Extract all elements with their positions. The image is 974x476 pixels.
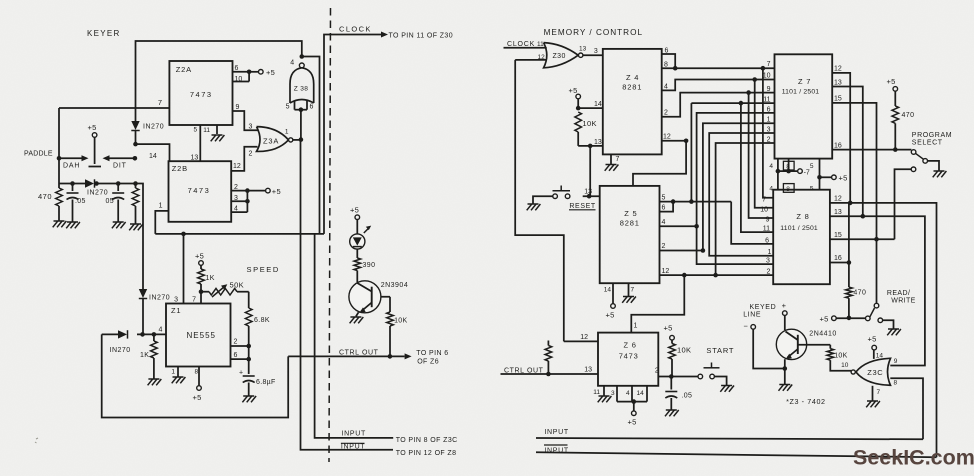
node Z8 pin 13 junction [861,214,866,219]
svg-text:1: 1 [767,117,771,124]
diode IN270 on bottom rail [85,179,108,196]
ground Z4 pin 7 [605,154,620,170]
svg-text:SPEED: SPEED [247,265,280,274]
wire Z2A pin 7 [59,98,169,108]
svg-text:Z 8: Z 8 [796,212,809,221]
key +5 terminal [88,123,97,137]
svg-text:READ/: READ/ [887,290,910,297]
resistor 10K keyed [827,345,848,360]
IC Z6 7473 [598,333,658,386]
svg-text:6: 6 [662,204,666,211]
IC Z8 1101/2501 [773,190,830,285]
IC Z4 8281 [603,49,662,154]
INPUT terminal right [528,429,569,436]
svg-text:7: 7 [158,98,162,107]
wire Z4 pin 14 [576,101,603,110]
wire Z4 pin 6 bracket [662,48,676,69]
wire keyer INPUT-bar line [301,140,394,451]
svg-text:KEYER: KEYER [87,29,121,38]
resistor 470 read-write [846,287,867,318]
svg-text:Z 6: Z 6 [624,341,637,350]
svg-text:.05: .05 [75,198,86,205]
wire CTRL OUT of keyer [288,349,448,365]
ground dah cap [66,222,80,228]
svg-text:WRITE: WRITE [891,297,916,304]
diode IN270 into Z1 pin 4 [110,330,131,354]
svg-text:50K: 50K [230,281,245,290]
wire Z7 pin 2 bus to Z8 pin 2 [716,136,775,275]
svg-text:TO PIN 6: TO PIN 6 [416,350,448,357]
wire Z1 pin 2 [231,339,252,349]
IC Z2B 7473 [169,161,232,222]
svg-text:13: 13 [579,46,587,53]
wire Z1 pin 4 line [102,327,166,335]
wire Z7 pin 4 pin 8 to -7 supply [769,159,810,177]
+5 terminal Z6 start [664,324,675,344]
node bus on Z5 pin 2 line [701,248,706,253]
svg-text:12: 12 [834,196,842,203]
svg-text:5: 5 [662,194,666,201]
wire bus Z7.7 to Z8.7 [762,68,773,203]
label Z3 is 7402 [786,397,826,406]
svg-text:10K: 10K [834,353,847,360]
node PADDLE junction [24,151,61,161]
svg-text:4: 4 [626,390,630,397]
INPUT stub to pin 8 of Z3C [396,437,458,444]
svg-text:3: 3 [611,390,615,397]
svg-text:12: 12 [663,134,671,141]
wire Z5 pin 2 bus [660,243,703,250]
wire read-write rail upper [848,203,850,287]
wire clock to Z30 pin 11 [504,47,547,49]
svg-text:Z3A: Z3A [263,137,279,146]
wire Z30 pin 12 [515,54,547,61]
+5 terminal Z5 pin 14 [604,283,616,319]
wire Z8 pin 12 to input-bar line [830,196,937,458]
switch START pushbutton [698,346,734,385]
svg-text:1: 1 [634,323,638,330]
wire DAH contact arrow [59,155,89,169]
svg-text:+: + [239,370,243,377]
svg-text:3: 3 [767,126,771,133]
svg-text:12: 12 [834,66,842,73]
wire Z6 pin 12 [564,334,598,341]
wire Z2B pins 2 3 4 to +5 [231,184,281,213]
svg-text:14: 14 [637,390,645,397]
capacitor .05 dah [67,181,86,222]
node speed diode junction [140,332,145,337]
+5 terminal Z4 pin 14 [569,86,581,108]
wire Z7 pin 1 bus to Z5 pin 2 [703,117,775,251]
IC Z7 1101/2501 [775,54,833,158]
node DIT junction [133,156,138,161]
ground paddle 470 [53,221,67,227]
svg-text:8281: 8281 [622,83,642,92]
switch RESET pushbutton [533,186,596,210]
+5 terminal Z6 power [628,402,637,427]
svg-text:15: 15 [834,96,842,103]
svg-text:390: 390 [363,262,376,269]
INPUT-bar terminal right [528,445,569,455]
svg-text:2: 2 [249,151,253,158]
IC Z2A 7473 [169,61,232,125]
svg-text:+5: +5 [569,86,578,95]
svg-text:+5: +5 [628,418,637,427]
svg-text:NE555: NE555 [187,331,216,340]
wire Z2A pin 5 to Z2B pin 13 [191,125,201,162]
svg-text:3: 3 [174,297,178,304]
svg-text:14: 14 [149,153,157,160]
svg-text:2: 2 [664,110,668,117]
wire Z6 pin 2 start line [655,367,698,376]
wire Z7 pin 5 to +5 and Z8 pin 5 [810,159,848,193]
svg-text:Z 4: Z 4 [626,73,639,82]
svg-text:4: 4 [290,60,294,67]
svg-text:Z 38: Z 38 [294,86,308,93]
svg-text:2: 2 [234,184,238,191]
svg-text:TO PIN 11 OF Z30: TO PIN 11 OF Z30 [389,33,454,40]
wire 2N4410 base [798,344,831,346]
wire Z7 pin 16 program select [832,142,911,149]
svg-text:Z30: Z30 [553,53,566,60]
wire Z5 pin 13 [583,189,600,197]
node Z7 pin 10 bus [752,77,757,82]
wire Z6 pins 3 4 14 bracket [611,386,647,402]
wire Z1 pin 6 [231,346,252,361]
READ WRITE label [887,290,916,304]
wire bus Z7.10 to Z8.10 [755,80,774,214]
wire Z4 pin 2 to Z7 pin 9 [662,86,775,117]
svg-text:11: 11 [763,226,770,233]
svg-text:9: 9 [894,358,898,365]
svg-text:1: 1 [768,249,772,256]
node above Z38 output [300,54,305,59]
wire keyed collector [784,315,786,330]
svg-text:+5: +5 [88,123,97,132]
svg-text:2N4410: 2N4410 [809,331,837,338]
wire Z7 pin 12 to Z8 pin 12 [832,66,850,203]
svg-text:13: 13 [584,367,592,374]
svg-text:3: 3 [766,258,770,265]
svg-text:14: 14 [876,353,884,360]
ground Z1 pin 1 [171,367,185,384]
svg-text:10K: 10K [394,318,407,325]
ground start button [720,386,734,392]
wire Z3C pin 8 to input line [890,378,923,439]
+5 terminal read-write [820,314,866,323]
capacitor 6.8uF [239,359,276,396]
node Z6 power bracket [632,399,637,404]
LED indicator [350,219,372,249]
transistor Q2 2N4410 [776,329,837,368]
svg-text:IN270: IN270 [110,347,131,354]
svg-text:Z 5: Z 5 [624,209,637,218]
svg-text:7: 7 [631,287,635,294]
svg-text:2: 2 [234,339,238,346]
wire Z6 pin 1 to Z5 pin 12 line [631,275,684,333]
svg-text:Z1: Z1 [171,306,181,315]
capacitor .05 dit [106,181,125,222]
+5 terminal Z3C pin 14 [868,335,884,360]
ground 2N4410 [779,369,793,391]
svg-text:11: 11 [203,127,210,134]
node Z7 pin 7 bus [761,66,766,71]
svg-text:6.8µF: 6.8µF [256,379,276,386]
svg-text:PADDLE: PADDLE [24,151,53,158]
CLOCK input terminal [497,41,545,48]
svg-text:4: 4 [664,84,668,91]
svg-text:10: 10 [763,73,771,80]
wire Z5 pin 4 bus [660,219,697,226]
wire Z4 pin 12 [662,134,686,141]
wire feedback rail Z30 pin12 to Z6 pin 12 [515,60,564,342]
wire Z4 pin 8 to Z7 pin 7 [662,61,775,69]
svg-text:6: 6 [665,48,669,55]
ground program select [933,171,947,177]
svg-text:3: 3 [249,124,253,131]
node speed wiper [199,289,204,294]
svg-text:12: 12 [538,54,546,61]
svg-text:*Z3 - 7402: *Z3 - 7402 [786,397,826,406]
svg-text:CLOCK: CLOCK [339,25,372,34]
wire Z2A pin 9 to Z3A pin 3 [233,104,258,131]
svg-text:14: 14 [594,101,602,108]
svg-text:13: 13 [594,139,602,146]
CLOCK stub label and arrow to pin 11 of Z30 [339,25,453,40]
resistor 6.8K [245,292,270,346]
switch PROGRAM SELECT [911,132,952,171]
svg-text:4: 4 [769,163,773,170]
node CTRL OUT 10K [388,354,393,359]
svg-text:1: 1 [171,369,175,376]
svg-text:+5: +5 [664,324,673,333]
node bus on Z5 pin 4 line [694,224,699,229]
wire Z7 pin 3 bus to Z8 pin 1 [709,126,774,256]
svg-text:-7: -7 [804,169,810,176]
svg-text:6: 6 [310,104,314,111]
svg-text:CTRL OUT: CTRL OUT [339,349,379,356]
KEYED LINE terminals [743,301,787,331]
node 2N4410 emitter [783,366,788,371]
svg-text:RESET: RESET [569,203,595,210]
wire 555 pin 7 [192,292,201,304]
wire Z2B pin 12 to Z3A pin 2 [231,147,257,171]
wire bus Z5.5 to Z8.6 [731,202,773,245]
resistor 10K keyer [387,297,408,357]
svg-text:+5: +5 [839,174,848,183]
node reset to Z5 pin 13 [587,194,592,199]
svg-text:7: 7 [877,389,881,396]
ground Z3C pin 7 [866,386,880,408]
svg-text:9: 9 [766,217,770,224]
svg-text:DAH: DAH [63,163,80,170]
svg-text:Z2B: Z2B [172,164,188,173]
svg-text:10: 10 [841,362,849,369]
scan artifact mark [35,438,38,443]
wire keyed minus to emitter [753,329,785,368]
ground Z5 pin 7 [622,283,636,303]
wire Z7 pin 11 bus [691,97,774,104]
ground dit resistor [129,224,143,230]
node Z3A output [299,137,304,142]
svg-text:Z2A: Z2A [176,65,192,74]
svg-text:05: 05 [106,198,114,205]
svg-text:12: 12 [580,334,588,341]
wire 10K to Z3C output [830,360,851,371]
svg-text:470: 470 [902,112,915,119]
node reset junction [588,144,593,149]
INPUT-bar stub to pin 12 of Z8 [396,450,457,457]
svg-text:6: 6 [234,352,238,359]
svg-text:8: 8 [664,62,668,69]
svg-text:6.8K: 6.8K [254,317,270,324]
IC Z5 8281 [600,186,660,283]
svg-text:1101 / 2501: 1101 / 2501 [782,89,820,96]
+5 speed terminal [195,252,204,270]
node Z5 pin 12 to Z6 pin 1 [682,273,687,278]
svg-text:7473: 7473 [619,352,639,361]
svg-text:.05: .05 [682,393,693,400]
svg-text:10K: 10K [582,119,597,128]
node Z7 pin 11 bus [739,101,744,106]
svg-text:+: + [782,301,787,310]
resistor dit rail [132,181,139,224]
wire Z7 pin 6 bus to Z8 pin 3 [697,106,775,264]
svg-text:INPUT: INPUT [544,429,569,436]
ground Z2A pin 11 [203,125,224,141]
wire from Z38 node to inner clock rail [302,57,320,234]
svg-text:2N3904: 2N3904 [381,282,409,289]
svg-text:IN270: IN270 [149,295,170,302]
svg-text:2: 2 [655,367,659,374]
node Z8 pin 16 [847,260,852,265]
svg-text:LINE: LINE [743,311,761,318]
svg-text:8: 8 [786,186,790,193]
svg-text:+5: +5 [350,206,359,215]
svg-text:TO PIN 8 OF Z3C: TO PIN 8 OF Z3C [396,437,458,444]
svg-text:8: 8 [894,380,898,387]
svg-text:1K: 1K [140,352,149,359]
wire Z5 pin 12 to Z8 pin 2 [660,268,774,276]
wire 555 discharge loop [102,334,289,417]
svg-text:4: 4 [234,206,238,213]
wire Z2A pins 6 10 to +5 [233,65,276,83]
node Z5 pin 5 bracket [671,199,676,204]
svg-text:+5: +5 [868,335,877,344]
svg-text:15: 15 [834,232,842,239]
dashed section divider [329,8,331,462]
svg-text:INPUT: INPUT [341,444,366,451]
wire keyer INPUT line [315,234,394,438]
diode IN270 above Z1 [139,289,170,334]
+5 terminal program pullup [887,77,898,106]
node Z6 pin 2 junction [669,374,674,379]
wire Z1 pin 3 clock output [174,234,183,304]
svg-text:4: 4 [159,327,163,334]
node dit rail to Z2B pin 14 [133,142,138,147]
svg-text:10K: 10K [677,346,691,355]
svg-text:IN270: IN270 [87,190,108,197]
wire Z4 pin 13 [578,139,603,146]
wire 2N3904 base [372,296,390,298]
wire Z5 pin 6 bracket [660,202,674,212]
switch READ WRITE [866,303,894,328]
node Z8 pin 12 junction [848,201,853,206]
svg-text:Z3C: Z3C [867,368,883,377]
wire Z8 pin 15 line [830,232,895,239]
key lever [89,137,102,166]
node Z4 pin 12 [684,139,689,144]
svg-text:SeekIC.com: SeekIC.com [853,446,974,470]
wire paddle bottom rail [59,183,136,185]
gate Z38 NOR [286,60,314,111]
wire bus Z7.9 to Z8.9 [749,93,774,224]
svg-text:8: 8 [195,369,199,376]
svg-text:START: START [706,346,734,355]
wire CTRL OUT to Z6 pin 13 [501,367,599,374]
svg-text:+5: +5 [606,311,615,320]
svg-text:3: 3 [594,48,598,55]
svg-text:PROGRAM: PROGRAM [912,132,952,139]
+5 LED terminal [350,206,360,220]
wire Z5 pin 5 bus [660,194,732,201]
node Z7 pin 9 bus [746,90,751,95]
resistor 1K under pin4 line [140,332,157,379]
svg-text:11: 11 [763,97,770,104]
svg-text:16: 16 [834,142,842,149]
wire dit rail down to speed diode [136,184,144,290]
node program select pullup [893,147,898,152]
wire CLOCK rail of keyer [324,35,383,234]
svg-text:6: 6 [765,237,769,244]
svg-text:5: 5 [810,186,814,193]
section label KEYER [87,29,121,38]
ground dit cap [112,222,126,228]
ground 6.8uF [242,396,256,402]
resistor 470 program [892,106,914,150]
diode IN270 on dit rail [131,108,164,144]
ground start cap [665,410,679,416]
IC Z1 NE555 [166,304,231,367]
ground Z6 pin 11 [593,386,611,403]
svg-text:+5: +5 [195,252,204,261]
svg-text:4: 4 [769,186,773,193]
svg-text:4: 4 [662,219,666,226]
wire Z7 pin 13 to Z8 pin 13 [832,79,863,216]
node bus on Z8 pin 2 line [713,273,718,278]
svg-text:IN270: IN270 [143,124,164,131]
svg-text:TO PIN 12 OF Z8: TO PIN 12 OF Z8 [396,450,457,457]
svg-text:+5: +5 [272,187,281,196]
svg-text:12: 12 [233,163,241,170]
svg-text:7: 7 [762,197,766,204]
svg-text:7473: 7473 [190,90,213,99]
resistor 10K reset [575,112,597,146]
svg-text:12: 12 [662,268,670,275]
svg-text:1101 / 2501: 1101 / 2501 [780,225,818,232]
node Z7 pin 5 supply [817,175,822,180]
svg-text:13: 13 [834,209,842,216]
wire Z38 inputs to Z3A output [300,110,302,140]
resistor 10K start [669,344,692,377]
wire Z2B pin 1 loop [155,203,168,234]
wire Z4 pin 4 to Z7 pin 10 [662,73,775,91]
svg-text:MEMORY / CONTROL: MEMORY / CONTROL [544,28,643,37]
wire to Z2B pin 14 [136,144,170,161]
svg-text:−: − [744,322,749,331]
wire Z8 pin 16 read-write [830,255,849,262]
wire left paddle rail [58,108,60,184]
